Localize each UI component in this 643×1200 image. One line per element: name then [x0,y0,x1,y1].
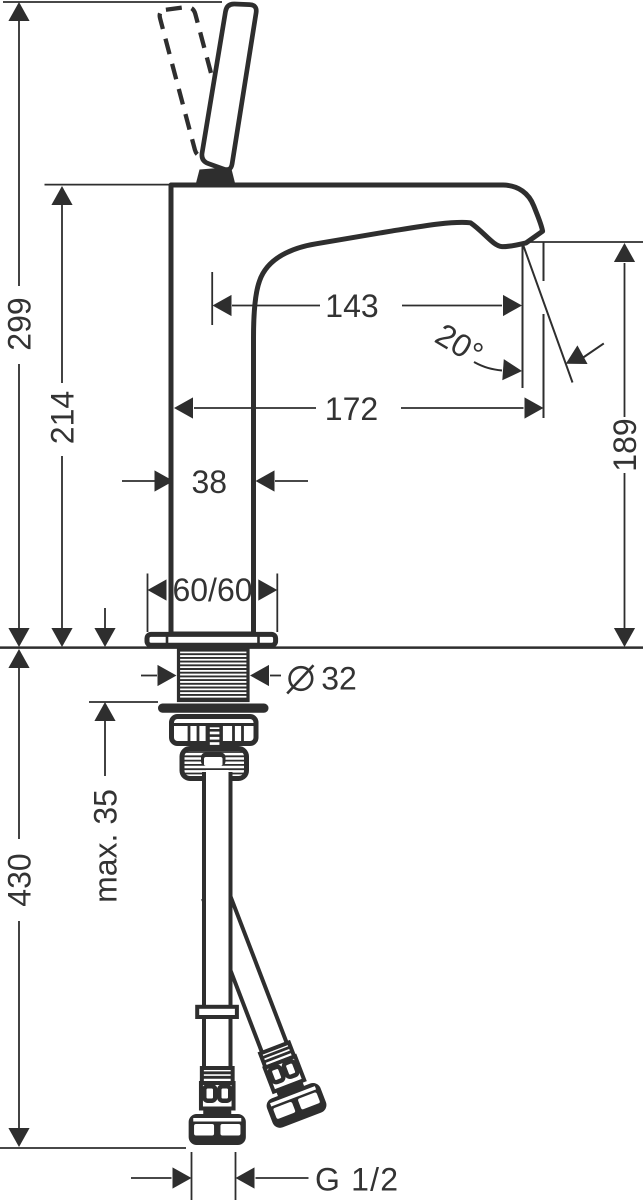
svg-text:60/60: 60/60 [172,572,252,608]
diagonal hose coupler body [265,1056,305,1091]
dim max. 35 [89,608,158,776]
spout tip extension line A [522,244,524,389]
base plate edge marks [166,633,169,646]
top extension line [3,1,222,3]
handle lever (solid) [202,4,256,170]
dim 430 [0,668,186,1148]
spout angle line 20deg [524,246,573,383]
vertical hose coupler body [201,1083,234,1109]
svg-text:430: 430 [2,853,38,906]
diagonal hose crimp [260,1042,294,1067]
svg-text:G 1/2: G 1/2 [315,1162,399,1198]
dim 189 [527,242,643,628]
vertical hose collar [197,1007,237,1017]
dim 143 [212,272,502,325]
dim 214 [61,205,63,628]
svg-text:299: 299 [2,297,38,350]
lower shank block [182,749,247,779]
dim G 1/2 [131,1152,309,1200]
vertical supply hose [206,770,229,1069]
hose saddle clamp [201,753,226,767]
svg-text:32: 32 [321,661,357,697]
threaded rod below nut [209,726,221,762]
handle lever (dashed alternate position) [160,7,231,156]
dim 38 [122,480,308,482]
spout tip extension line B [543,242,545,281]
dim 60/60 [148,574,278,633]
svg-text:172: 172 [325,391,378,427]
faucet body and spout outline [171,185,543,634]
dim diameter 32 [141,675,281,677]
svg-text:143: 143 [325,288,378,324]
washer bar [158,704,269,713]
base plate (escutcheon) [147,634,276,645]
svg-text:max. 35: max. 35 [88,789,124,903]
vertical hose connector [189,1068,246,1145]
handle joint [196,167,236,185]
deck extension line [45,184,171,186]
diagonal hose end cap [264,1081,329,1130]
dim 172 [194,407,524,409]
dim 299 [18,21,20,628]
vertical hose end cap [189,1114,246,1145]
vertical hose crimp [202,1068,233,1083]
diagonal supply hose [188,881,329,1130]
svg-text:38: 38 [192,464,228,500]
svg-text:214: 214 [45,391,81,444]
mounting nut [172,717,257,744]
svg-text:20°: 20° [429,316,489,372]
threaded shank [179,650,249,701]
countertop reference line [0,646,643,649]
svg-text:189: 189 [607,418,643,471]
